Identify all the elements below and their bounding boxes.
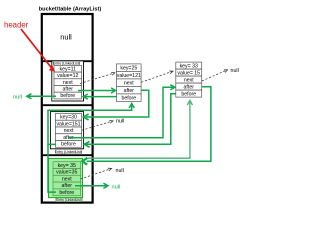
entry node D key=30 (Entry LinkedList) <box>50 112 83 154</box>
svg-text:before: before <box>181 91 196 97</box>
svg-text:key=11: key=11 <box>60 66 77 72</box>
svg-text:value= 15: value= 15 <box>177 70 200 76</box>
svg-text:next: next <box>62 176 72 182</box>
entry node B key=25 <box>117 64 142 102</box>
wire A.before -> null <box>28 95 57 97</box>
wire B.after -> D key row <box>86 90 149 117</box>
svg-text:before: before <box>121 95 136 101</box>
svg-text:after: after <box>62 183 73 189</box>
array divider 2 <box>42 104 93 106</box>
svg-text:after: after <box>124 88 135 94</box>
wire C.before -> D before row <box>86 94 176 145</box>
wire B.before -> A <box>84 96 117 98</box>
svg-text:before: before <box>60 93 75 99</box>
dashed wire E.next -> null <box>81 169 112 180</box>
svg-text:after: after <box>184 84 195 90</box>
svg-text:after: after <box>63 87 74 93</box>
wire A.after -> B <box>78 90 115 92</box>
svg-text:next: next <box>64 128 74 134</box>
dashed wire A.next -> B <box>80 73 115 84</box>
entry node A key=11 (Entry LinkedList) <box>52 61 84 101</box>
svg-text:null: null <box>60 33 72 42</box>
svg-text:before: before <box>61 142 76 148</box>
svg-text:next: next <box>63 80 73 86</box>
svg-text:value=151: value=151 <box>56 121 80 127</box>
svg-text:next: next <box>124 80 134 86</box>
svg-text:Entry (LinkedList): Entry (LinkedList) <box>56 198 82 202</box>
wire E.after -> null green <box>75 185 107 187</box>
svg-text:null: null <box>231 68 239 74</box>
svg-text:header: header <box>4 20 29 29</box>
svg-text:value=35: value=35 <box>56 170 77 176</box>
array (ArrayList) outer rectangle <box>42 14 93 203</box>
svg-text:key=25: key=25 <box>120 65 137 71</box>
dashed wire C.next -> null <box>202 70 228 81</box>
dashed wire D.next -> null <box>82 121 113 130</box>
dashed wire B.next -> C <box>141 71 173 82</box>
array divider 3 <box>42 154 93 156</box>
svg-text:null: null <box>116 168 124 174</box>
svg-text:value=121: value=121 <box>117 73 141 79</box>
svg-text:key=30: key=30 <box>60 115 77 121</box>
svg-text:null: null <box>13 95 22 101</box>
svg-text:value=12: value=12 <box>57 73 78 79</box>
wire C.after -> E key row <box>87 87 211 161</box>
array divider 1 <box>42 60 93 62</box>
header red arrow pointing to entry A <box>21 29 55 72</box>
svg-text:key= 33: key= 33 <box>180 63 198 69</box>
wire E.before stub joining shared vertical <box>48 144 56 192</box>
entry node C key=33 <box>176 62 202 97</box>
svg-text:before: before <box>59 190 74 196</box>
svg-text:next: next <box>184 77 194 83</box>
svg-text:null: null <box>112 184 121 190</box>
wire D.before -> B bottom (shared left vertical) <box>48 105 132 145</box>
svg-text:Entry (LinkedList): Entry (LinkedList) <box>53 62 80 66</box>
svg-text:null: null <box>116 119 124 125</box>
entry node E key=35 highlighted green (Entry LinkedList) <box>49 158 83 202</box>
svg-text:bucket/table (ArrayList): bucket/table (ArrayList) <box>39 7 102 13</box>
svg-text:key= 35: key= 35 <box>58 163 76 169</box>
wire D.after -> C after row <box>68 87 174 138</box>
wire E.before(top) -> C bottom <box>88 102 190 158</box>
svg-text:Entry (LinkedList): Entry (LinkedList) <box>55 150 82 154</box>
